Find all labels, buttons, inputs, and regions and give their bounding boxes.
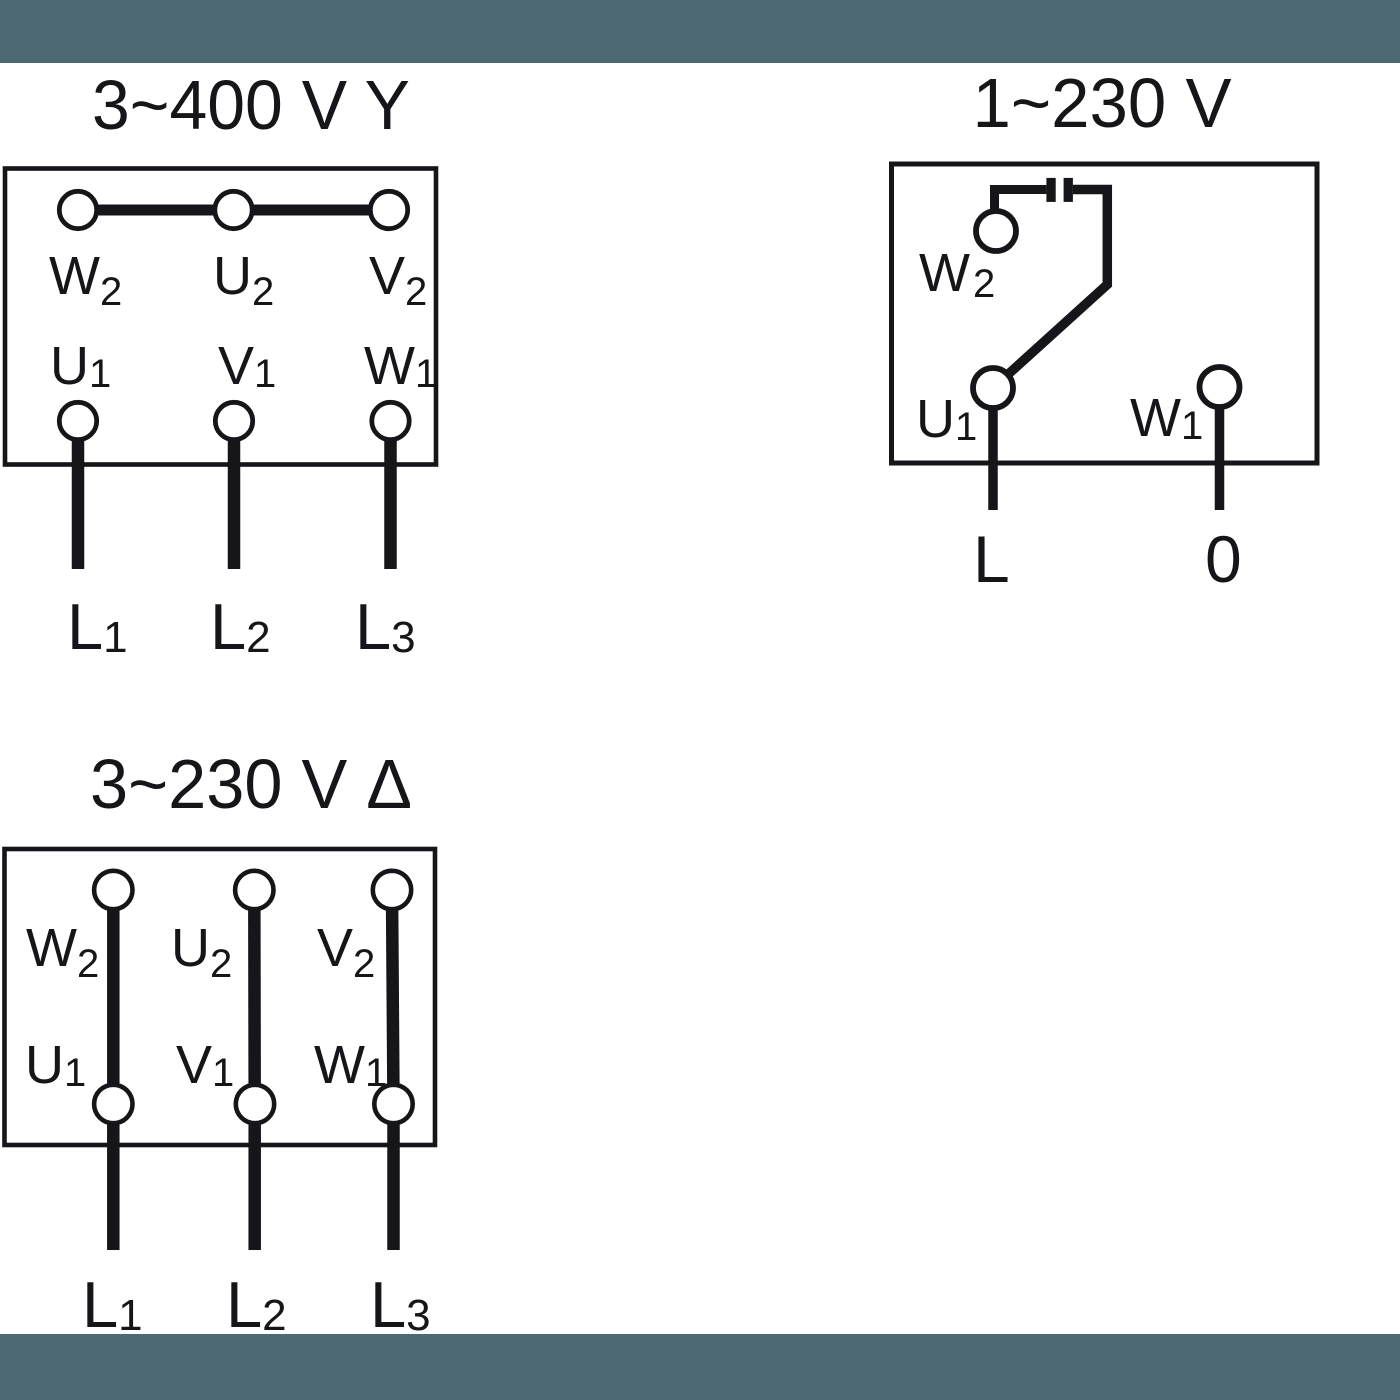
terminal W1 (delta) xyxy=(374,1085,412,1123)
lead wire to 0 xyxy=(1215,387,1225,510)
terminal W2 (delta) xyxy=(94,871,132,909)
svg-text:L: L xyxy=(973,522,1010,596)
lead wire to L1 (delta) xyxy=(107,1104,120,1250)
svg-text:3~230 V Δ: 3~230 V Δ xyxy=(90,745,412,823)
terminal V1 (delta) xyxy=(236,1085,274,1123)
lead wire to L2 (delta) xyxy=(248,1104,261,1250)
capacitor plate right xyxy=(1064,178,1073,202)
terminal box (single phase) xyxy=(892,164,1318,463)
wire: capacitor down-diagonal to U1 xyxy=(993,190,1107,389)
terminal U2 (delta) xyxy=(235,871,273,909)
terminal U1 (single phase) xyxy=(973,368,1013,408)
lead wire to L3 xyxy=(384,421,397,569)
terminal V2 (delta) xyxy=(373,871,411,909)
wire: star bridge bar W2-U2-V2 xyxy=(78,205,389,216)
top banner bar xyxy=(0,0,1400,63)
svg-text:L1: L1 xyxy=(67,590,128,663)
terminal U2 xyxy=(215,191,252,228)
wire: delta link V2-W1 xyxy=(392,891,394,1104)
lead wire to L1 xyxy=(72,421,85,569)
svg-text:U2: U2 xyxy=(171,918,232,986)
bottom banner bar xyxy=(0,1334,1400,1400)
terminal V1 xyxy=(215,402,252,439)
terminal U1 xyxy=(59,402,96,439)
svg-text:V2: V2 xyxy=(317,918,375,986)
svg-text:W2: W2 xyxy=(26,918,99,986)
svg-text:L3: L3 xyxy=(370,1268,431,1341)
svg-text:U1: U1 xyxy=(916,389,977,449)
terminal W2 xyxy=(59,191,96,228)
wire: delta link U2-V1 xyxy=(248,891,261,1104)
svg-text:L2: L2 xyxy=(226,1268,287,1341)
terminal W2 (single phase) xyxy=(976,211,1016,251)
svg-text:W2: W2 xyxy=(919,243,995,306)
svg-text:W1: W1 xyxy=(1130,388,1203,448)
svg-text:1~230 V: 1~230 V xyxy=(973,64,1232,142)
terminal U1 (delta) xyxy=(94,1085,132,1123)
svg-text:V2: V2 xyxy=(369,246,427,314)
svg-text:U1: U1 xyxy=(25,1035,86,1095)
wire: W2 up to capacitor xyxy=(995,190,1047,232)
svg-text:W2: W2 xyxy=(49,246,122,314)
svg-text:L1: L1 xyxy=(82,1268,143,1341)
terminal W1 xyxy=(372,402,409,439)
lead wire to L3 (delta) xyxy=(387,1104,400,1250)
terminal W1 (single phase) xyxy=(1200,367,1240,407)
svg-text:0: 0 xyxy=(1205,522,1242,596)
svg-text:W1: W1 xyxy=(314,1035,387,1095)
svg-text:L3: L3 xyxy=(355,590,416,663)
lead wire to L2 xyxy=(228,421,241,569)
capacitor plate left xyxy=(1046,178,1055,202)
svg-text:3~400 V Y: 3~400 V Y xyxy=(92,66,410,144)
terminal box (delta) xyxy=(5,849,436,1145)
svg-text:L2: L2 xyxy=(210,590,271,663)
lead wire to L xyxy=(988,388,998,510)
wire: delta link W2-U1 xyxy=(107,891,120,1104)
svg-text:V1: V1 xyxy=(176,1035,234,1095)
svg-text:U1: U1 xyxy=(50,336,111,396)
svg-text:W1: W1 xyxy=(364,336,437,396)
terminal V2 xyxy=(370,191,407,228)
terminal box (star) xyxy=(5,169,436,465)
svg-text:V1: V1 xyxy=(218,336,276,396)
svg-text:U2: U2 xyxy=(213,246,274,314)
